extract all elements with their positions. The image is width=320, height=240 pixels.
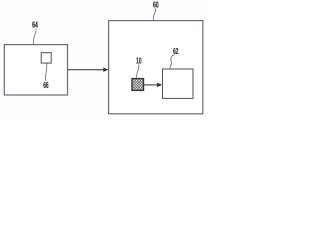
svg-text:60: 60 — [153, 0, 159, 9]
inner square 66 — [41, 53, 51, 63]
leader line 64 — [33, 29, 36, 44]
square 62 — [163, 69, 194, 98]
leader line 66 — [45, 63, 46, 80]
arrow from square 10 to square 62 — [144, 83, 162, 87]
hatched square 10 — [132, 79, 144, 91]
svg-text:66: 66 — [43, 81, 49, 90]
leader line 62 — [170, 55, 175, 69]
box 60 — [109, 21, 203, 114]
svg-text:64: 64 — [32, 20, 38, 29]
box 64 — [4, 45, 67, 95]
svg-text:10: 10 — [136, 56, 142, 65]
leader line 10 — [137, 64, 139, 78]
leader line 60 — [153, 8, 155, 20]
arrow from box 64 to box 60 — [68, 68, 108, 72]
